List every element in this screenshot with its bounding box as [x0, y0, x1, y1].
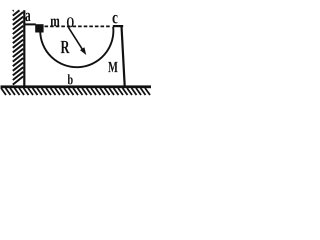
label O — [67, 17, 74, 27]
wall hatching — [13, 10, 23, 84]
block M top-left surface — [24, 23, 36, 25]
block M top-right surface — [113, 25, 123, 27]
label a — [25, 13, 30, 22]
label b — [68, 74, 73, 84]
block M right edge — [122, 26, 125, 86]
semicircular groove arc R — [40, 27, 113, 67]
wall — [23, 10, 25, 86]
radius arrow from O — [68, 27, 83, 50]
ball m (black square) at point a — [35, 24, 43, 32]
label M — [108, 62, 117, 72]
label c — [113, 15, 118, 24]
arrowhead — [80, 47, 86, 55]
ground hatching — [1, 88, 150, 95]
label R — [61, 41, 70, 53]
ground — [1, 85, 152, 88]
label m — [51, 19, 60, 27]
dashed diameter a-O-c — [45, 25, 112, 27]
